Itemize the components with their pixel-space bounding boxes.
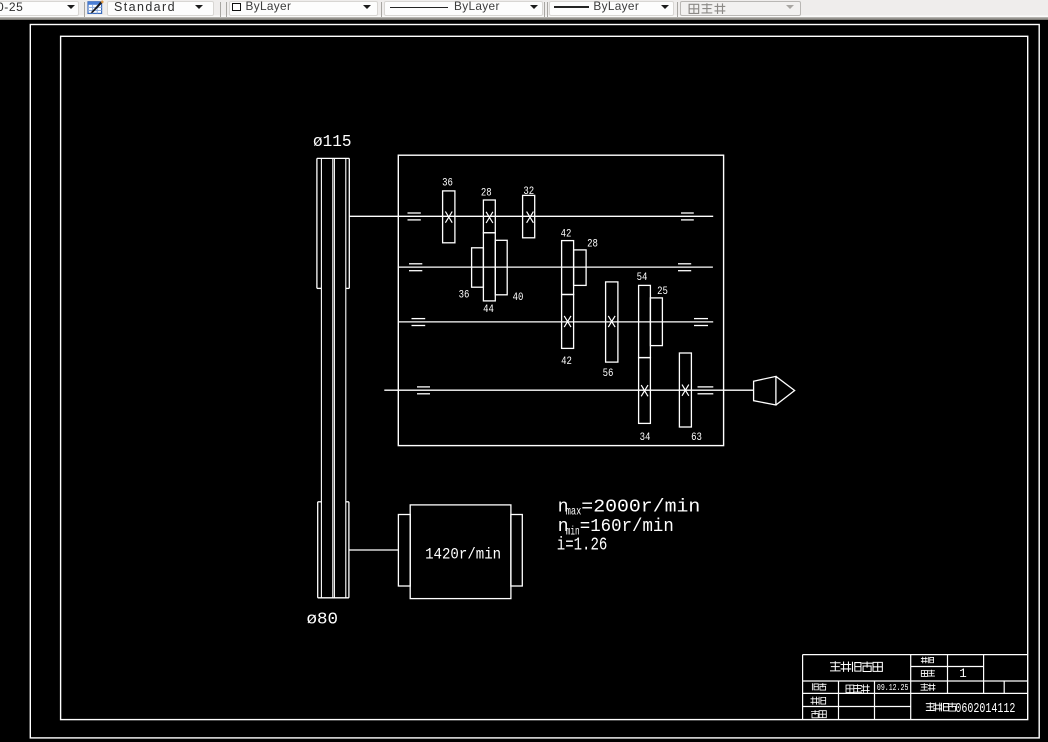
title block v2 xyxy=(874,681,876,720)
output tool-post arrow xyxy=(754,376,795,405)
svg-text:63: 63 xyxy=(691,432,702,444)
gear Z44 shaft II xyxy=(483,233,495,301)
combo: text style Standard xyxy=(107,1,214,17)
gear Z36 shaft I xyxy=(443,191,455,243)
svg-text:i=1.26: i=1.26 xyxy=(557,536,608,556)
svg-text:56: 56 xyxy=(603,368,614,380)
svg-text:32: 32 xyxy=(523,186,534,198)
title block left edge xyxy=(802,655,804,720)
svg-text:0602014112: 0602014112 xyxy=(955,701,1015,717)
belt lines xyxy=(320,158,322,597)
svg-text:42: 42 xyxy=(561,356,572,368)
gear Z42 shaft III xyxy=(562,295,574,349)
svg-text:42: 42 xyxy=(561,229,572,241)
toolbar icon: dim style table+pencil xyxy=(87,0,105,15)
title block h4 xyxy=(803,706,911,708)
combo: lineweight ByLayer xyxy=(549,1,674,17)
svg-text:25: 25 xyxy=(657,286,668,298)
svg-text:ø80: ø80 xyxy=(307,611,339,630)
label 件数 xyxy=(921,671,927,677)
shaft I left bearing xyxy=(408,212,421,214)
title block v3 main divider xyxy=(910,655,912,720)
shaft II left bearing xyxy=(409,263,422,265)
shaft II right bearing xyxy=(678,263,691,265)
title block h3 xyxy=(803,692,1028,694)
gear Z25 shaft III xyxy=(650,298,662,346)
svg-text:28: 28 xyxy=(481,188,492,200)
school + id 中北大学0602014112 xyxy=(926,702,935,710)
title text 传动系统图 xyxy=(830,661,841,671)
gear Z63 shaft IV xyxy=(679,353,691,427)
label 审核 xyxy=(811,710,819,718)
svg-text:09.12.25: 09.12.25 xyxy=(877,683,909,693)
svg-text:1: 1 xyxy=(959,667,967,681)
combo: plot style 随颜色 (disabled) xyxy=(680,1,801,17)
svg-text:28: 28 xyxy=(587,238,598,250)
title block v6 xyxy=(1003,681,1005,694)
gear Z32 shaft I xyxy=(523,195,535,237)
combo: color ByLayer with swatch xyxy=(229,1,378,17)
title block v4 xyxy=(947,655,949,694)
combo: dimension style (cut off) xyxy=(0,1,79,17)
label 制图 xyxy=(812,683,818,690)
gear Z28 shaft II xyxy=(574,250,587,286)
label 比例 xyxy=(921,657,928,663)
shaft I right bearing xyxy=(681,212,694,214)
svg-text:36: 36 xyxy=(442,177,453,189)
shaft III left bearing xyxy=(412,318,426,320)
label 重量 xyxy=(921,683,929,690)
pulley P1 (ø115) xyxy=(316,158,318,288)
combo: linetype ByLayer xyxy=(384,1,543,17)
shaft IV left bearing xyxy=(417,386,430,388)
motor left boss xyxy=(398,515,410,587)
shaft IV wire (output spindle) xyxy=(384,389,753,391)
svg-text:=2000r/min: =2000r/min xyxy=(581,497,700,517)
gear Z34 shaft IV xyxy=(639,358,651,424)
svg-text:=160r/min: =160r/min xyxy=(580,517,674,537)
title block h1 xyxy=(911,666,984,668)
motor shaft wire xyxy=(349,549,399,551)
svg-text:36: 36 xyxy=(459,290,470,302)
title block v1 xyxy=(838,681,840,720)
shaft IV right bearing xyxy=(698,386,714,388)
gear Z56 shaft III xyxy=(606,282,618,362)
shaft III wire xyxy=(398,321,713,323)
svg-text:40: 40 xyxy=(513,292,524,304)
svg-text:44: 44 xyxy=(483,304,494,316)
gear Z54 shaft III xyxy=(639,285,651,357)
label 描图 xyxy=(811,697,819,705)
shaft II wire xyxy=(398,266,713,268)
gearbox housing xyxy=(398,155,723,445)
title block h2 xyxy=(803,680,1028,682)
gear Z40 shaft II xyxy=(495,240,507,294)
svg-text:1420r/min: 1420r/min xyxy=(425,545,501,563)
shaft I wire xyxy=(349,215,713,217)
title block v5 xyxy=(983,655,985,694)
gear Z36 shaft II xyxy=(472,248,484,287)
title block h0 top xyxy=(803,654,1028,656)
motor M1 body xyxy=(410,505,511,599)
gear Z42 shaft II xyxy=(562,241,574,295)
application toolbar xyxy=(0,0,1048,20)
gear Z28 shaft I xyxy=(483,200,495,233)
svg-text:ø115: ø115 xyxy=(313,132,352,151)
name 胡星浩 xyxy=(846,685,854,692)
pulley P2 (ø80) xyxy=(317,502,319,598)
motor right boss xyxy=(511,515,522,587)
svg-text:54: 54 xyxy=(637,272,648,284)
svg-text:34: 34 xyxy=(640,432,651,444)
shaft III right bearing xyxy=(694,318,708,320)
